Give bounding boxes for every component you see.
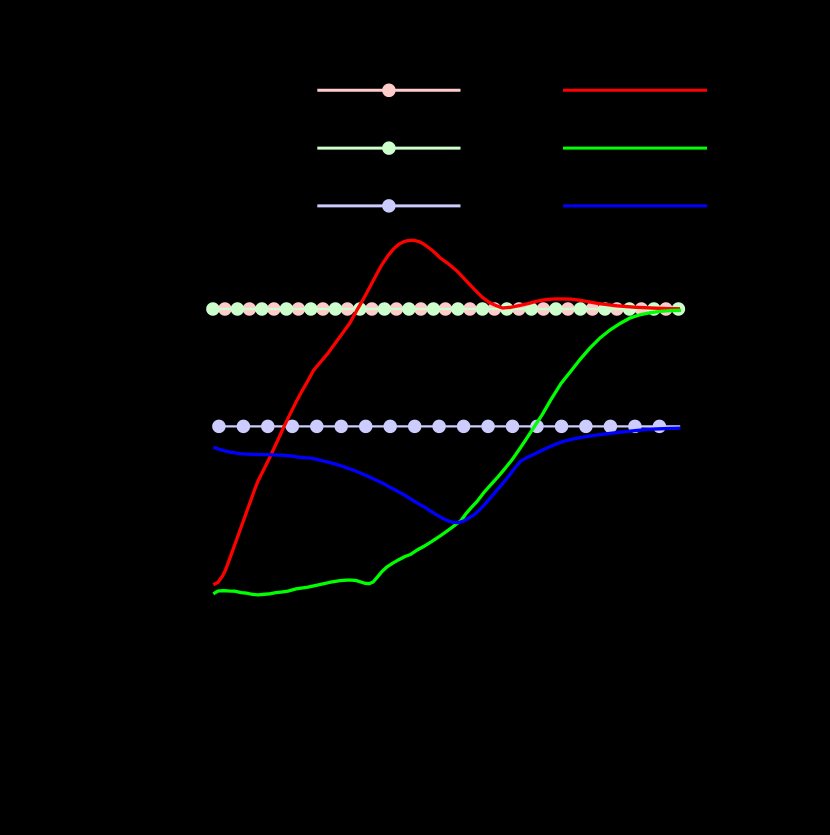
lavender dotted horizontal series <box>212 420 680 434</box>
legend entry blue line <box>563 204 707 207</box>
pink dotted horizontal series <box>213 302 673 316</box>
green curve <box>213 310 681 595</box>
legend entry pale-green line+point <box>317 141 460 155</box>
legend entry pink line+point <box>317 84 460 98</box>
red curve <box>213 240 680 584</box>
legend entry lavender line+point <box>317 199 460 213</box>
pale-green dotted horizontal series <box>206 302 685 316</box>
legend entry green line <box>563 147 707 150</box>
legend entry red line <box>563 89 707 92</box>
blue curve <box>213 428 680 522</box>
